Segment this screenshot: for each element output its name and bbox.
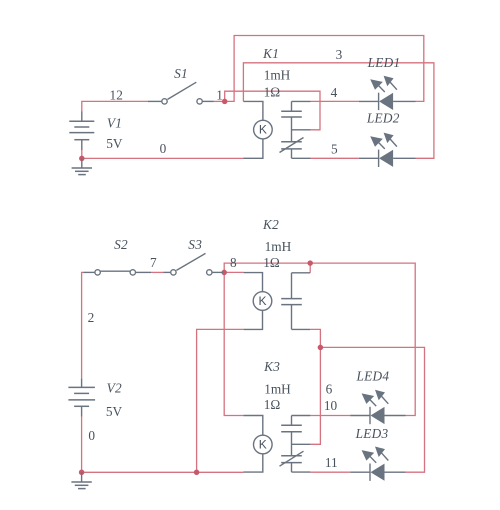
svg-text:K: K [258,294,266,308]
svg-text:K1: K1 [262,46,279,61]
svg-text:LED4: LED4 [356,369,390,384]
svg-text:K: K [259,123,267,137]
svg-text:2: 2 [88,310,95,325]
svg-text:V2: V2 [107,380,122,395]
svg-text:1: 1 [216,87,223,102]
svg-text:S1: S1 [174,66,188,81]
svg-text:LED2: LED2 [366,111,400,126]
svg-text:LED3: LED3 [355,426,389,441]
svg-text:7: 7 [150,255,157,270]
svg-text:V1: V1 [107,115,122,130]
svg-text:K: K [259,438,267,452]
svg-text:1Ω: 1Ω [264,397,281,412]
svg-text:4: 4 [331,85,338,100]
svg-text:1mH: 1mH [265,239,292,254]
svg-text:1Ω: 1Ω [264,84,281,99]
svg-text:3: 3 [336,47,343,62]
svg-text:1mH: 1mH [264,382,291,397]
svg-text:10: 10 [324,398,338,413]
svg-text:K2: K2 [262,217,279,232]
svg-text:LED1: LED1 [367,55,401,70]
svg-text:6: 6 [326,382,333,397]
svg-text:12: 12 [110,87,123,102]
svg-text:S2: S2 [114,237,128,252]
svg-text:8: 8 [230,255,237,270]
svg-text:S3: S3 [188,237,202,252]
svg-text:1mH: 1mH [264,67,291,82]
svg-text:5V: 5V [106,136,123,151]
svg-text:5: 5 [331,142,338,157]
svg-text:1Ω: 1Ω [263,255,280,270]
svg-text:5V: 5V [106,404,123,419]
svg-text:K3: K3 [263,359,280,374]
svg-text:11: 11 [325,455,338,470]
svg-text:0: 0 [160,141,167,156]
svg-text:0: 0 [88,428,95,443]
